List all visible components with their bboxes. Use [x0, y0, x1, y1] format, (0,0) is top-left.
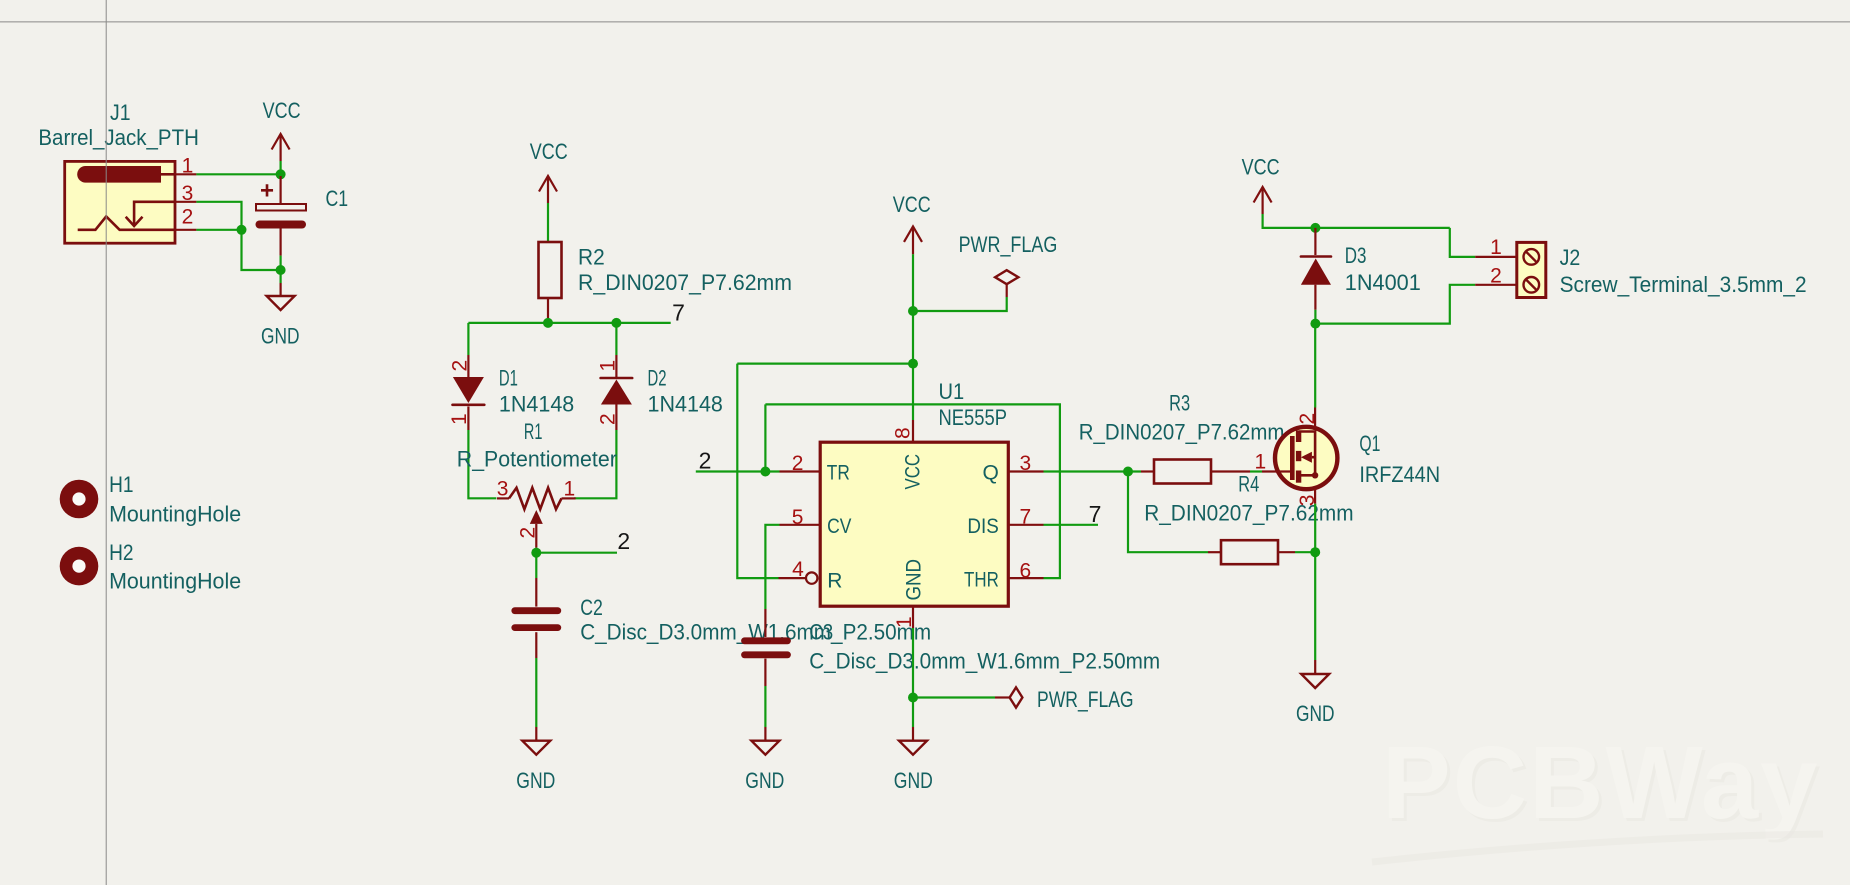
svg-text:NE555P: NE555P [939, 405, 1008, 430]
svg-text:7: 7 [672, 300, 685, 326]
svg-text:5: 5 [792, 506, 804, 529]
svg-text:VCC: VCC [1242, 154, 1280, 179]
junction pin2/pin3 [237, 225, 247, 235]
wire DIS to net7 [1044, 524, 1099, 526]
svg-text:6: 6 [1020, 559, 1032, 582]
svg-text:1: 1 [563, 478, 575, 501]
svg-text:R3: R3 [1169, 391, 1190, 416]
wire node7 horizontal [468, 322, 670, 324]
junction Q/R4 [1123, 467, 1133, 477]
svg-text:Screw_Terminal_3.5mm_2: Screw_Terminal_3.5mm_2 [1560, 272, 1807, 297]
svg-text:VCC: VCC [902, 454, 925, 490]
svg-text:R2: R2 [578, 245, 605, 270]
connector J2 body [1517, 242, 1546, 297]
transistor Q1 IRFZ44N [1255, 408, 1338, 507]
svg-text:2: 2 [448, 360, 471, 372]
diode D3 [1301, 228, 1331, 310]
wire U1 GND down [912, 628, 914, 727]
power flag PWR_FLAG bottom [913, 687, 1134, 712]
ground GND at C1 [261, 283, 300, 349]
U1 pin 3 Q [982, 452, 1043, 485]
svg-text:3: 3 [1020, 452, 1032, 475]
wire R2 to node [547, 318, 549, 323]
wire VCC to reset loop [737, 363, 913, 365]
junction R4/source [1310, 547, 1320, 557]
svg-text:1: 1 [448, 413, 471, 425]
svg-text:R4: R4 [1238, 472, 1259, 497]
junction C1 top [276, 169, 286, 179]
resistor R3 [1141, 460, 1250, 484]
ic U1 NE555P body [820, 442, 1008, 606]
junction wiper [531, 548, 541, 558]
junction R2 bottom [543, 318, 553, 328]
junction GND flag tap [908, 693, 918, 703]
J1 pin 1 [175, 155, 196, 178]
wire wiper net2 [536, 552, 617, 554]
svg-text:IRFZ44N: IRFZ44N [1359, 462, 1440, 487]
wire C2 to GND [535, 658, 537, 727]
svg-text:1: 1 [893, 616, 916, 628]
wire to J2 pin2 [1315, 285, 1475, 324]
wire C1 bottom [280, 256, 282, 283]
svg-text:Barrel_Jack_PTH: Barrel_Jack_PTH [38, 125, 199, 150]
wire TR vertical [764, 404, 766, 471]
svg-text:R_DIN0207_P7.62mm: R_DIN0207_P7.62mm [1079, 420, 1285, 445]
svg-text:D2: D2 [648, 365, 667, 390]
power symbol VCC at D3 [1242, 154, 1280, 214]
svg-text:Q1: Q1 [1359, 431, 1380, 456]
svg-text:+: + [260, 178, 274, 205]
svg-text:1: 1 [1490, 236, 1502, 259]
connector J1 body [65, 161, 175, 243]
J2 pin 2 [1475, 264, 1517, 287]
U1 pin 8 VCC [892, 420, 925, 490]
svg-text:2: 2 [517, 527, 540, 539]
svg-text:R_DIN0207_P7.62mm: R_DIN0207_P7.62mm [1144, 500, 1353, 525]
svg-text:2: 2 [182, 206, 194, 229]
svg-text:8: 8 [892, 427, 915, 439]
wire D1 to pot [468, 430, 496, 498]
power symbol VCC at U1 [893, 192, 931, 254]
svg-text:VCC: VCC [263, 98, 301, 123]
wire reset loop down to R pin [737, 364, 778, 578]
ground GND at C3 [745, 727, 784, 793]
U1 pin 7 DIS [967, 505, 1043, 538]
wire CV to C3 [765, 525, 779, 609]
power flag PWR_FLAG top [913, 232, 1057, 311]
svg-text:U1: U1 [939, 379, 965, 404]
wire source down [1314, 504, 1316, 553]
wire to J2 pin1 [1450, 228, 1475, 257]
wire to D1 [467, 323, 469, 355]
junction D3 top [1310, 223, 1320, 233]
U1 pin 6 THR [964, 559, 1044, 591]
svg-text:J2: J2 [1560, 245, 1581, 270]
svg-text:1N4148: 1N4148 [499, 391, 574, 416]
svg-text:C2: C2 [580, 595, 603, 620]
svg-text:Q: Q [982, 462, 998, 485]
wire to D2 [615, 323, 617, 355]
svg-text:MountingHole: MountingHole [109, 501, 241, 526]
svg-text:7: 7 [1089, 501, 1102, 527]
svg-text:R_Potentiometer: R_Potentiometer [457, 446, 617, 471]
wire R4 to source [1295, 551, 1315, 553]
potentiometer R1 [497, 478, 576, 548]
svg-text:MountingHole: MountingHole [109, 569, 241, 594]
junction D2 top [611, 318, 621, 328]
svg-text:1: 1 [1255, 450, 1267, 473]
U1 pin 5 CV [780, 506, 852, 538]
svg-text:GND: GND [903, 559, 926, 601]
resistor R2 [539, 242, 562, 318]
svg-text:1N4148: 1N4148 [648, 391, 723, 416]
ground GND at C2 [516, 727, 555, 793]
svg-text:2: 2 [1296, 413, 1319, 425]
mounting hole H1 [60, 480, 99, 519]
wire D3 bottom [1314, 310, 1316, 324]
svg-text:J1: J1 [110, 100, 131, 125]
wire VCC to J2/D3 [1263, 214, 1450, 228]
svg-text:TR: TR [827, 462, 850, 485]
wire drain up [1314, 324, 1316, 408]
svg-text:GND: GND [1296, 701, 1335, 726]
J1 pin 2 [175, 206, 196, 230]
capacitor C1 [256, 176, 306, 256]
U1 pin 1 GND [893, 559, 926, 628]
svg-text:4: 4 [792, 558, 804, 581]
svg-text:3: 3 [182, 182, 194, 205]
svg-text:C_Disc_D3.0mm_W1.6mm_P2.50mm: C_Disc_D3.0mm_W1.6mm_P2.50mm [809, 649, 1160, 674]
svg-text:CV: CV [827, 515, 851, 538]
svg-text:C3: C3 [809, 620, 833, 645]
diode D1 [448, 355, 485, 430]
junction D3 bottom [1310, 319, 1320, 329]
svg-text:2: 2 [792, 452, 804, 475]
junction TR [760, 467, 770, 477]
ground GND at Q1 [1296, 660, 1335, 726]
svg-text:7: 7 [1020, 505, 1032, 528]
wire D2 to pot [574, 430, 616, 498]
capacitor C2 [515, 578, 558, 658]
svg-text:R1: R1 [524, 419, 543, 444]
svg-text:R_DIN0207_P7.62mm: R_DIN0207_P7.62mm [578, 270, 792, 295]
wire net2 to TR [696, 470, 780, 472]
wire VCC down to U1 pin8 [912, 254, 914, 420]
svg-text:D3: D3 [1345, 243, 1367, 268]
svg-text:R: R [827, 569, 842, 592]
svg-text:1: 1 [182, 155, 194, 178]
svg-text:VCC: VCC [530, 139, 568, 164]
svg-text:GND: GND [745, 768, 784, 793]
J2 pin 1 [1475, 236, 1517, 259]
svg-text:GND: GND [516, 768, 555, 793]
svg-text:PWR_FLAG: PWR_FLAG [959, 232, 1058, 257]
svg-text:1: 1 [596, 360, 619, 372]
wire source to GND [1314, 552, 1316, 660]
wire C3 to GND [764, 686, 766, 727]
svg-text:2: 2 [596, 413, 619, 425]
svg-text:DIS: DIS [967, 515, 998, 538]
svg-text:GND: GND [261, 324, 300, 349]
mounting hole H2 [60, 547, 99, 586]
U1 pin 4 R with bubble [779, 558, 843, 592]
svg-text:3: 3 [497, 478, 509, 501]
wire J1 pin2 join [196, 229, 241, 231]
svg-text:H2: H2 [109, 540, 133, 565]
ground GND at U1 [894, 727, 933, 793]
wire R3 to gate [1250, 470, 1262, 472]
wire TR loop over the top [765, 404, 1060, 578]
junction R-loop tap [908, 359, 918, 369]
svg-text:1N4001: 1N4001 [1345, 270, 1421, 295]
svg-text:THR: THR [964, 568, 999, 591]
wire VCC to R2 [547, 203, 549, 242]
svg-text:2: 2 [1490, 264, 1502, 287]
svg-text:PWR_FLAG: PWR_FLAG [1037, 687, 1134, 712]
resistor R4 [1208, 540, 1295, 564]
diode D2 [596, 355, 632, 430]
junction C1 bottom [276, 265, 286, 275]
power symbol VCC at C1 [263, 98, 301, 176]
U1 pin 2 TR [780, 452, 850, 485]
wire J1 pin3 down to GND net [196, 202, 280, 270]
power symbol VCC at R2 [530, 139, 568, 203]
svg-text:GND: GND [894, 768, 933, 793]
svg-text:D1: D1 [499, 365, 518, 390]
J1 pin 3 [175, 182, 196, 205]
watermark PCBWay [1372, 725, 1823, 862]
svg-text:PCBWay: PCBWay [1382, 725, 1819, 840]
wire Q to R3 [1044, 470, 1142, 472]
capacitor C3 [745, 609, 788, 686]
wire down to R4 [1128, 472, 1208, 553]
wire wiper down [535, 548, 537, 578]
junction PWR_FLAG tap [908, 306, 918, 316]
svg-text:H1: H1 [109, 472, 133, 497]
svg-text:C1: C1 [326, 186, 349, 211]
svg-text:2: 2 [617, 528, 630, 554]
svg-text:2: 2 [699, 448, 712, 474]
svg-text:VCC: VCC [893, 192, 931, 217]
wire J1 pin1 to C1 [196, 173, 280, 175]
